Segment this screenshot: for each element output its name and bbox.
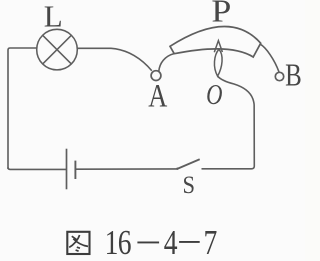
svg-text:P: P: [211, 0, 231, 29]
wiper arrow with loop handle: [214, 41, 222, 77]
terminal A: [151, 71, 161, 81]
svg-text:6: 6: [118, 223, 132, 261]
battery cell: [67, 149, 76, 190]
wire wiper O down to bottom-right corner: [202, 76, 255, 169]
wire battery to bottom-left corner: [8, 167, 67, 169]
svg-text:A: A: [148, 78, 167, 114]
wire terminal A to rheostat left end: [159, 54, 174, 72]
svg-text:O: O: [206, 78, 223, 110]
wire lamp to terminal A: [77, 48, 152, 71]
svg-text:L: L: [44, 0, 63, 33]
caption text 16-4-7: [105, 223, 218, 261]
svg-text:S: S: [182, 172, 195, 199]
wire left-top: from top-left corner to lamp: [8, 48, 37, 169]
wire rheostat right end to terminal B: [260, 44, 279, 72]
svg-text:4: 4: [164, 223, 178, 261]
caption 图 (figure) box glyph: [67, 232, 89, 254]
rheostat P body (curved band): [170, 26, 261, 57]
wire switch to battery: [75, 168, 177, 170]
switch S: [176, 159, 200, 170]
svg-text:B: B: [285, 58, 302, 94]
svg-text:1: 1: [105, 223, 119, 261]
terminal B: [275, 72, 283, 80]
svg-text:7: 7: [203, 223, 217, 261]
lamp L: [37, 29, 78, 70]
